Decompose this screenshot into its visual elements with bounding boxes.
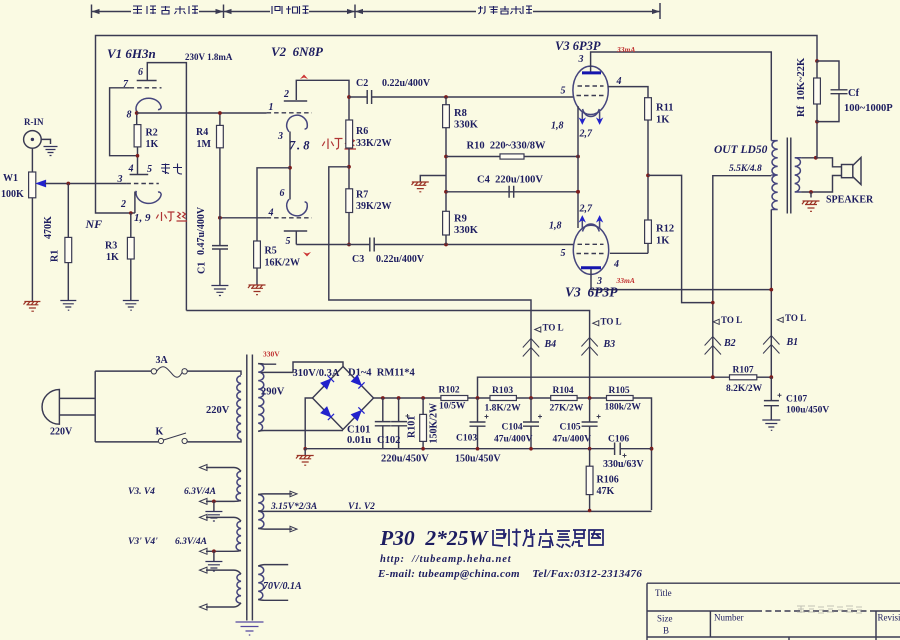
- wire R3 top: [130, 213, 132, 237]
- svg-text:B: B: [663, 626, 669, 636]
- svg-text:R1: R1: [50, 250, 61, 262]
- svg-text:1M: 1M: [197, 139, 212, 150]
- wire C2 stub: [349, 96, 367, 98]
- ground (core): [236, 622, 264, 635]
- wire B+ feed to B4 rail: [329, 167, 531, 398]
- node B2/screen join: [711, 301, 715, 305]
- svg-text:330u/63V: 330u/63V: [603, 459, 644, 470]
- capacitor C104: [530, 398, 532, 422]
- resistor R106: [589, 449, 591, 467]
- wire W1 to ground: [31, 198, 33, 301]
- svg-text:5: 5: [561, 86, 566, 97]
- svg-text:R8: R8: [454, 108, 467, 119]
- wire jack to W1: [31, 148, 33, 172]
- wire C2 to V3a grid: [372, 96, 574, 98]
- ground rail: [305, 448, 651, 450]
- resistor R10: [500, 154, 524, 159]
- node C103 bottom: [476, 447, 480, 451]
- tube envelope V3b: [573, 225, 608, 274]
- node R3 top: [129, 211, 133, 215]
- ground (jack): [44, 147, 58, 156]
- wire bridge minus to ground rail: [305, 398, 312, 449]
- node R10 left: [444, 155, 448, 159]
- wire bridge plus to filter rail: [374, 397, 441, 399]
- ground (fil1): [205, 512, 222, 522]
- svg-text:150u/450V: 150u/450V: [455, 454, 501, 465]
- wire B2 column: [713, 176, 772, 378]
- svg-text:4: 4: [268, 208, 274, 219]
- svg-text:33mA: 33mA: [616, 276, 635, 285]
- svg-text:R11: R11: [656, 103, 674, 114]
- ground (bridge, red): [304, 449, 306, 455]
- resistor R2: [134, 125, 141, 147]
- wire fil2 bottom lead: [206, 550, 241, 553]
- svg-text:C105: C105: [560, 423, 581, 433]
- svg-text:3: 3: [277, 131, 283, 142]
- OPT primary winding: [771, 141, 777, 210]
- svg-text:C101: C101: [347, 425, 370, 436]
- svg-text:W1: W1: [3, 173, 18, 184]
- node grid4/C1: [218, 216, 222, 220]
- resistor R6: [346, 120, 353, 148]
- resistor R7: [346, 189, 353, 213]
- svg-text:Rf 10K~22K: Rf 10K~22K: [796, 57, 807, 117]
- filament winding 1: [236, 471, 241, 500]
- V2b cathode arc (pin 6): [287, 199, 308, 216]
- svg-text:R10 220~330/8W: R10 220~330/8W: [467, 141, 546, 152]
- svg-text:R7: R7: [356, 190, 368, 201]
- V3b cathode arc: [583, 224, 600, 232]
- V1a grid (pin 7) dashed: [130, 87, 162, 89]
- resistor R9: [443, 211, 450, 235]
- svg-text:. 8: . 8: [297, 139, 310, 153]
- wire R5 to ground: [256, 268, 258, 285]
- wire R8 to R9 column: [445, 128, 447, 212]
- svg-text:2,7: 2,7: [579, 204, 594, 215]
- node B1/plate line: [769, 288, 773, 292]
- ground (R3): [123, 301, 139, 311]
- wire cathode to R5: [257, 168, 290, 241]
- svg-text:1K: 1K: [106, 252, 119, 263]
- node N2: [476, 396, 480, 400]
- node R10 right: [576, 155, 580, 159]
- svg-text:2: 2: [120, 199, 126, 210]
- wire 3.15V top lead: [258, 493, 292, 496]
- wire 3.15V centre lead (heater bias rail): [258, 510, 651, 513]
- svg-text:6.3V/4A: 6.3V/4A: [184, 487, 216, 497]
- V2a cathode arc: [287, 115, 308, 132]
- capacitor C101: [382, 398, 384, 421]
- svg-text:0.01u: 0.01u: [347, 435, 371, 446]
- wire V1 plate to B+ rail: [147, 63, 186, 311]
- svg-text:5: 5: [147, 164, 152, 175]
- node N4: [588, 396, 592, 400]
- svg-text:2: 2: [283, 89, 289, 100]
- svg-text:V3. V4: V3. V4: [128, 487, 155, 497]
- wire V2b plate to C3: [296, 244, 369, 246]
- wire V1b cathode (pin 2): [134, 192, 136, 214]
- svg-text:33K/2W: 33K/2W: [356, 138, 392, 149]
- svg-text:5: 5: [561, 248, 566, 259]
- svg-text:6: 6: [280, 188, 285, 199]
- svg-text:330K: 330K: [454, 225, 479, 236]
- diode D2: [351, 375, 364, 388]
- wire jack to ground: [41, 139, 50, 144]
- diode D4: [351, 407, 364, 420]
- svg-text:V3' V4': V3' V4': [128, 537, 158, 547]
- label 倒相级: [272, 6, 309, 14]
- svg-text:SPEAKER: SPEAKER: [826, 195, 874, 206]
- svg-text:100u/450V: 100u/450V: [786, 406, 829, 416]
- svg-text:5: 5: [286, 236, 291, 247]
- wire V1a cathode (pin 8): [136, 111, 138, 125]
- svg-text:R6: R6: [356, 126, 368, 137]
- svg-text:TO L: TO L: [543, 323, 564, 333]
- wire V2 cathodes: [289, 132, 291, 200]
- label 功率放大级: [478, 6, 532, 14]
- node cathode junction lower: [576, 190, 580, 194]
- primary 220V winding: [237, 376, 241, 440]
- wire fuse to primary: [187, 371, 241, 375]
- svg-text:2,7: 2,7: [579, 129, 594, 140]
- faint watermark text: [797, 606, 862, 613]
- ground (W1, red): [24, 302, 41, 312]
- node pin7 loop: [136, 154, 140, 158]
- resistor R4: [219, 113, 221, 125]
- wire NF column: [816, 122, 817, 158]
- V2a grid (pin 1) dashed: [267, 112, 312, 114]
- wire to switch: [95, 441, 158, 443]
- svg-text:230V 1.8mA: 230V 1.8mA: [185, 52, 233, 62]
- wire V2a plate to C2 node: [296, 80, 349, 120]
- AC plug: [42, 390, 59, 425]
- svg-text:3: 3: [578, 54, 584, 65]
- node C4 left: [444, 190, 448, 194]
- node R7/C3: [347, 243, 351, 247]
- svg-text:R3: R3: [105, 241, 117, 252]
- wire C107 to ground: [770, 406, 772, 420]
- wire HV bottom to bridge: [258, 430, 343, 433]
- resistor R101: [422, 398, 424, 414]
- svg-text:OUT LD50: OUT LD50: [714, 144, 768, 156]
- wire R4 bottom to C1: [219, 148, 221, 246]
- V3a grids dashed: [577, 86, 605, 96]
- wire screens to B2 column: [648, 175, 713, 302]
- node R6/R7 B+: [347, 165, 351, 169]
- wire cathode column: [577, 106, 579, 228]
- wiper arrow W1: [37, 181, 46, 187]
- title 胆机功放原理图: [493, 529, 603, 549]
- wire C1 to ground: [219, 249, 221, 285]
- bridge diamond: [313, 367, 374, 430]
- svg-text:47u/400V: 47u/400V: [553, 435, 592, 445]
- svg-text:4: 4: [616, 76, 622, 87]
- svg-text:P30 2*25W: P30 2*25W: [379, 526, 489, 550]
- tube envelope V3a: [573, 66, 608, 114]
- svg-text:5.5K/4.8: 5.5K/4.8: [729, 164, 762, 174]
- node Rf top: [815, 59, 819, 63]
- wire pin8 to V2 grid: [137, 112, 267, 114]
- ground (fil2): [205, 562, 222, 572]
- resistor Rf: [816, 61, 818, 78]
- ground (C107): [762, 420, 780, 430]
- capacitor C103: [477, 398, 479, 422]
- wire plug prongs: [59, 371, 95, 442]
- plate bar V3b: [581, 266, 601, 269]
- svg-text:10/5W: 10/5W: [439, 402, 466, 412]
- svg-text:R101: R101: [407, 416, 418, 438]
- switch K: [158, 438, 163, 443]
- svg-text:8.2K/2W: 8.2K/2W: [726, 384, 763, 394]
- wire NF top rail: [96, 36, 818, 214]
- V2a plate bar (pin 2): [284, 100, 307, 102]
- wire R10 row: [446, 156, 578, 158]
- svg-text:R5: R5: [265, 246, 277, 257]
- resistor R103: [490, 396, 516, 401]
- svg-text:C1: C1: [197, 262, 208, 274]
- 70V winding: [258, 566, 264, 600]
- transformer core: [247, 355, 253, 621]
- node pin 8: [135, 111, 139, 115]
- svg-text:3A: 3A: [156, 355, 169, 366]
- cathode pin arrows: [582, 112, 599, 122]
- wire R1 top: [67, 184, 69, 238]
- svg-text:Revision: Revision: [878, 613, 900, 623]
- node bridge ground: [303, 447, 307, 451]
- svg-text:3: 3: [117, 174, 123, 185]
- svg-text:R9: R9: [454, 214, 467, 225]
- wire V2b plate to C3 wire: [295, 231, 297, 245]
- svg-text:1, 9: 1, 9: [134, 212, 151, 224]
- node screens B+: [646, 174, 650, 178]
- svg-text:0.47u/400V: 0.47u/400V: [196, 206, 207, 255]
- svg-text:0.22u/400V: 0.22u/400V: [376, 254, 425, 265]
- connector R-IN jack: [24, 131, 42, 149]
- wire wiper to grid V1: [45, 183, 126, 185]
- resistor R102: [441, 396, 468, 401]
- svg-text:V1 6H3n: V1 6H3n: [107, 46, 156, 61]
- cathode pin arrows lower: [582, 218, 599, 228]
- svg-text:R106: R106: [597, 475, 619, 486]
- potentiometer W1: [29, 172, 36, 198]
- resistor R5: [254, 241, 261, 268]
- chevron B1: [763, 336, 779, 354]
- capacitor C106: [615, 443, 621, 456]
- svg-text:B2: B2: [723, 338, 736, 349]
- svg-text:E-mail: tubeamp@china.com T: E-mail: tubeamp@china.com Tel/Fax:0312-2…: [377, 568, 642, 580]
- svg-text:C102: C102: [377, 435, 400, 446]
- diode D1: [321, 376, 334, 389]
- OPT secondary winding: [795, 158, 801, 192]
- svg-text:3.15V*2/3A: 3.15V*2/3A: [270, 501, 317, 512]
- svg-text:C4 220u/100V: C4 220u/100V: [477, 175, 543, 186]
- capacitor Cf branch: [817, 61, 839, 122]
- wire to fuse: [95, 370, 151, 372]
- ground (R1): [60, 301, 76, 311]
- wire pin4 (screen): [608, 87, 648, 98]
- svg-text:8: 8: [127, 110, 132, 121]
- svg-text:V3 6P3P: V3 6P3P: [555, 39, 601, 53]
- resistor R1: [65, 237, 72, 262]
- node C104 bottom: [529, 447, 533, 451]
- svg-text:Number: Number: [714, 613, 744, 623]
- red arrow below V2b plate: [303, 252, 311, 257]
- svg-text:V1. V2: V1. V2: [348, 502, 375, 512]
- capacitor C2: [367, 90, 371, 104]
- V1a plate (pin 6): [137, 80, 157, 82]
- node C105 bottom: [588, 447, 592, 451]
- dimension line top: [92, 3, 661, 19]
- wire R107 right: [757, 376, 772, 378]
- chevron B2: [705, 337, 721, 355]
- svg-text:4: 4: [613, 259, 619, 270]
- svg-text:33mA: 33mA: [616, 45, 635, 54]
- capacitor C102: [398, 398, 400, 421]
- svg-text:100K: 100K: [1, 189, 24, 200]
- svg-text:K: K: [156, 427, 164, 438]
- svg-text:1,8: 1,8: [551, 121, 564, 132]
- svg-text:R105: R105: [609, 386, 630, 396]
- svg-text:R102: R102: [439, 386, 460, 396]
- wire 310V tap to bridge: [261, 362, 343, 373]
- node C101: [381, 396, 385, 400]
- node fil2 ground tap: [212, 549, 216, 553]
- wire fil3 top lead: [206, 570, 241, 574]
- V1b cathode arc: [136, 191, 161, 204]
- svg-text:6: 6: [138, 67, 143, 78]
- svg-text:B1: B1: [786, 337, 799, 348]
- svg-text:47u/400V: 47u/400V: [494, 435, 533, 445]
- svg-text:6.3V/4A: 6.3V/4A: [175, 537, 207, 547]
- svg-text:C2: C2: [356, 78, 368, 89]
- wire 330V stub: [258, 363, 276, 366]
- node cathode junction: [288, 166, 292, 170]
- fuse 3A: [151, 369, 156, 374]
- node C102: [397, 396, 401, 400]
- speaker: [842, 165, 853, 178]
- ground (bias, red): [412, 182, 429, 192]
- resistor R105: [607, 396, 634, 401]
- wire C4 row: [446, 191, 578, 193]
- svg-text:220V: 220V: [206, 405, 230, 416]
- svg-text:330K: 330K: [454, 120, 479, 131]
- node B1 bottom: [769, 375, 773, 379]
- node B2 bottom: [711, 375, 715, 379]
- filament winding 3: [236, 574, 241, 603]
- ground (R5, red): [248, 285, 266, 295]
- HV secondary winding: [258, 364, 264, 432]
- svg-text:V3 6P3P: V3 6P3P: [565, 285, 618, 300]
- wire fil2 top lead: [206, 517, 241, 521]
- svg-text:R4: R4: [196, 127, 208, 138]
- dimension arrowheads: [92, 9, 661, 14]
- node R101 bottom: [421, 447, 425, 451]
- svg-text:470K: 470K: [43, 216, 54, 239]
- node speaker ground: [809, 190, 813, 194]
- svg-text:4: 4: [128, 164, 134, 175]
- svg-text:C104: C104: [502, 423, 523, 433]
- svg-text:C106: C106: [608, 435, 629, 445]
- resistor R3: [127, 237, 134, 259]
- wire plate to OPT: [591, 52, 772, 141]
- node R101: [421, 396, 425, 400]
- svg-text:1K: 1K: [656, 115, 670, 126]
- svg-text:220u/450V: 220u/450V: [381, 454, 429, 465]
- svg-text:R12: R12: [656, 224, 674, 235]
- wire B+ rail to R107: [478, 377, 730, 398]
- node R106 bottom: [588, 509, 592, 513]
- resistor R12: [645, 220, 652, 243]
- svg-text:180k/2W: 180k/2W: [605, 403, 642, 413]
- svg-text:0.22u/400V: 0.22u/400V: [382, 78, 431, 89]
- wire fil3 bottom lead: [206, 603, 241, 607]
- wire switch to primary: [187, 439, 241, 442]
- svg-text:1K: 1K: [146, 139, 159, 150]
- node C2 left: [347, 95, 351, 99]
- V3a cathode arc: [583, 109, 600, 117]
- diode D3: [321, 407, 334, 420]
- label 接地: [161, 164, 182, 175]
- wire secondary bottom to speaker: [801, 176, 841, 193]
- ground (C1): [211, 286, 228, 296]
- chevron B4: [523, 339, 539, 357]
- wire 3.15V bottom lead: [258, 527, 292, 530]
- svg-text:Title: Title: [655, 588, 672, 598]
- svg-text:39K/2W: 39K/2W: [356, 201, 392, 212]
- svg-text:R104: R104: [553, 386, 574, 396]
- wire C3 to V3b grid: [374, 244, 573, 246]
- plate bar V3a: [582, 71, 601, 74]
- svg-text:B4: B4: [544, 339, 557, 350]
- svg-text:330V: 330V: [263, 350, 280, 359]
- capacitor C4: [509, 186, 514, 198]
- V1b grid (pin 3) dashed: [126, 183, 158, 185]
- wire plate to B1 column: [591, 269, 771, 290]
- svg-text:C103: C103: [456, 434, 477, 444]
- wire fil1 top lead: [206, 468, 241, 472]
- svg-text:TO L: TO L: [785, 313, 806, 323]
- wire B3 rail (V1 plate supply): [186, 311, 589, 398]
- wire fil1 bottom lead: [206, 500, 241, 503]
- capacitor C1: [212, 246, 228, 249]
- resistor R8: [445, 97, 447, 105]
- chevron B3: [581, 338, 597, 356]
- node Rf bottom: [815, 120, 819, 124]
- V3b grids dashed: [577, 244, 605, 253]
- red arrow above V2a plate: [300, 75, 308, 80]
- svg-text:1.8K/2W: 1.8K/2W: [485, 404, 522, 414]
- V2b plate bar (pin 5): [284, 230, 307, 232]
- svg-text:C3: C3: [352, 254, 364, 265]
- wire R1 to ground: [67, 263, 69, 301]
- wire 70V leads: [258, 565, 288, 601]
- wire B1 column: [770, 210, 772, 378]
- filament winding 2: [236, 521, 241, 550]
- OPT core: [787, 138, 791, 214]
- svg-text:NF: NF: [85, 217, 103, 231]
- capacitor C107: [770, 377, 772, 400]
- wire grid7 feedback loop: [110, 88, 138, 156]
- svg-text:1: 1: [269, 102, 274, 113]
- svg-text:R107: R107: [733, 366, 754, 376]
- svg-text:V2 6N8P: V2 6N8P: [271, 44, 324, 59]
- V1b plate bar (pin 4): [130, 174, 149, 176]
- capacitor C3: [370, 238, 374, 252]
- label 前置放大级: [133, 6, 198, 14]
- svg-text:47K: 47K: [597, 486, 615, 497]
- svg-text:1K: 1K: [656, 236, 670, 247]
- svg-text:R103: R103: [492, 386, 513, 396]
